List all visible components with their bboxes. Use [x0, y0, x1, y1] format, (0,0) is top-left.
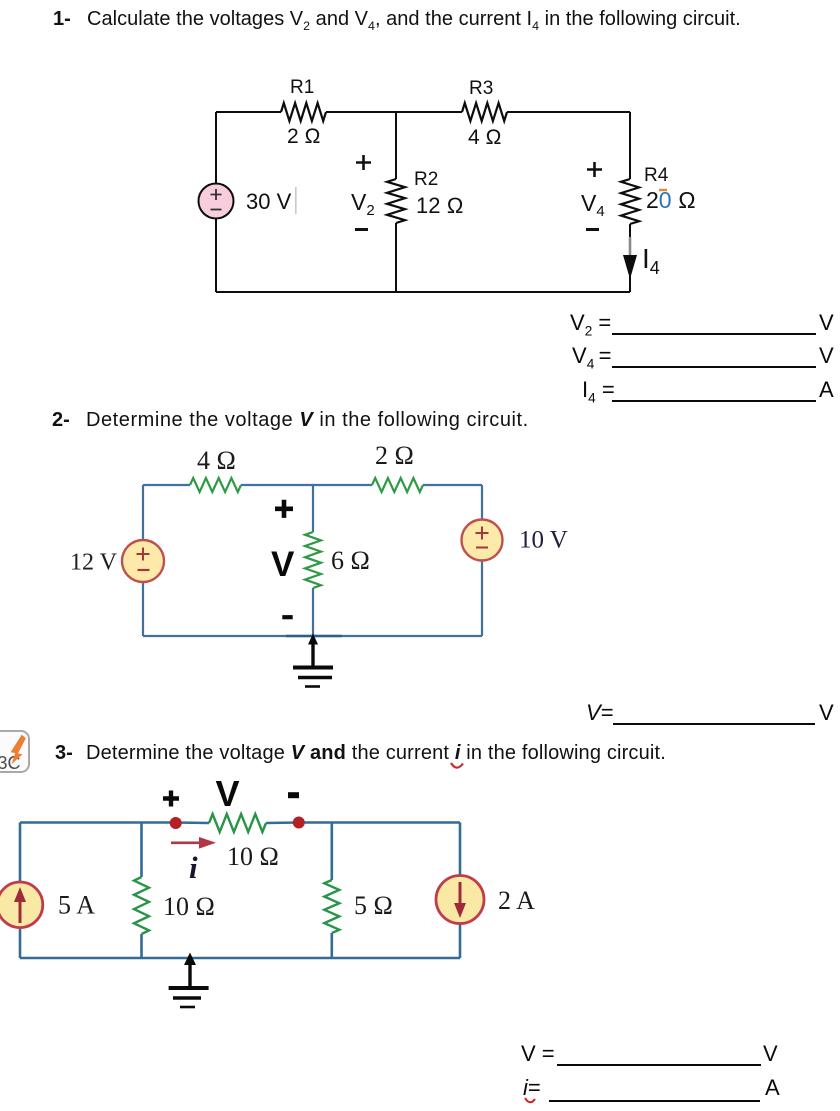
- svg-text:i: i: [189, 850, 198, 885]
- svg-text:R4: R4: [644, 165, 669, 186]
- svg-text:2 A: 2 A: [498, 886, 535, 915]
- svg-text:5 Ω: 5 Ω: [354, 891, 393, 920]
- svg-text:10 Ω: 10 Ω: [227, 842, 279, 871]
- svg-text:2 Ω: 2 Ω: [375, 441, 414, 470]
- circuit 1 schematic: [0, 60, 840, 310]
- wire: node branch 5 ohm: [330, 823, 333, 959]
- svg-text:V: V: [216, 773, 240, 814]
- resistor 10 ohm horizontal: [209, 814, 266, 832]
- current arrow I4: [623, 237, 637, 279]
- current arrow i: [171, 837, 216, 849]
- plus sign V: [163, 791, 179, 807]
- resistor 4 ohm: [190, 478, 241, 492]
- red spellcheck mark under title i: [449, 761, 467, 773]
- ground symbol: [293, 634, 333, 687]
- svg-text:20 Ω: 20 Ω: [646, 187, 696, 213]
- svg-text:R2: R2: [414, 169, 438, 190]
- svg-text:R1: R1: [290, 77, 314, 98]
- resistor R2: [387, 179, 405, 223]
- svg-text:12 V: 12 V: [70, 550, 118, 576]
- plus sign V4: [587, 162, 602, 177]
- resistor R4: [621, 179, 639, 224]
- wire: left dot to resistor: [175, 821, 209, 824]
- wire: circuit 3 outer loop: [20, 823, 460, 959]
- minus sign V4: [586, 228, 599, 231]
- svg-text:V2: V2: [351, 189, 375, 219]
- svg-text:5 A: 5 A: [58, 891, 95, 920]
- resistor 6 ohm: [305, 532, 321, 588]
- voltage source 10 V: [462, 520, 503, 561]
- minus sign V2: [355, 228, 368, 231]
- svg-text:30 V: 30 V: [246, 189, 292, 214]
- wire: middle branch: [312, 485, 314, 636]
- svg-text:10 V: 10 V: [519, 527, 568, 554]
- svg-text:4 Ω: 4 Ω: [197, 446, 236, 475]
- svg-text:R3: R3: [469, 78, 493, 99]
- orange artifact tick above 0: [659, 189, 667, 191]
- wire: middle branch node to bottom: [395, 112, 397, 292]
- minus sign V: [288, 792, 299, 798]
- answer blank V (problem 3): [521, 1041, 555, 1067]
- resistor R1: [281, 103, 326, 121]
- current source 2 A: [436, 876, 484, 924]
- voltage source 30 V: [199, 184, 234, 219]
- title problem 1: [53, 8, 71, 31]
- minus sign V: [282, 615, 292, 619]
- current source 5 A: [0, 882, 43, 928]
- wire: node branch 10 ohm: [140, 823, 143, 959]
- circuit 2 schematic: [0, 430, 840, 700]
- circuit 3 schematic: [0, 770, 840, 1015]
- ground symbol: [169, 953, 209, 1008]
- resistor R3: [462, 103, 507, 121]
- answer blank i: [523, 1075, 541, 1101]
- title problem 3: [55, 742, 73, 765]
- answer blank I4: [582, 377, 615, 405]
- red spellcheck mark under i: [523, 1096, 539, 1108]
- svg-text:V: V: [271, 545, 295, 584]
- answer blank V4: [572, 343, 612, 371]
- svg-text:10 Ω: 10 Ω: [163, 892, 215, 921]
- voltage source 12 V: [122, 540, 164, 582]
- wire: circuit 1 outer loop: [216, 112, 630, 292]
- resistor 10 ohm vertical: [134, 877, 149, 934]
- svg-text:4 Ω: 4 Ω: [468, 126, 502, 149]
- plus sign V2: [356, 155, 371, 170]
- autocorrect badge icon: [0, 726, 34, 782]
- svg-text:6 Ω: 6 Ω: [331, 546, 370, 575]
- wire: darker segment at ground junction: [286, 635, 342, 637]
- plus sign V: [275, 500, 293, 518]
- svg-text:12 Ω: 12 Ω: [416, 193, 463, 218]
- wire: resistor to right dot: [266, 821, 299, 824]
- title problem 2: [52, 409, 70, 432]
- svg-text:I4: I4: [642, 243, 660, 278]
- resistor 2 ohm: [372, 478, 423, 492]
- svg-text:V4: V4: [581, 190, 605, 220]
- node dot right: [293, 817, 305, 829]
- node dot left: [170, 817, 182, 829]
- svg-text:2 Ω: 2 Ω: [287, 125, 321, 148]
- resistor 5 ohm: [324, 880, 339, 933]
- wire: circuit 2 outer loop: [143, 485, 482, 636]
- answer blank V2: [570, 310, 611, 338]
- text cursor artifact: [295, 187, 297, 214]
- answer blank V (problem 2): [586, 700, 614, 726]
